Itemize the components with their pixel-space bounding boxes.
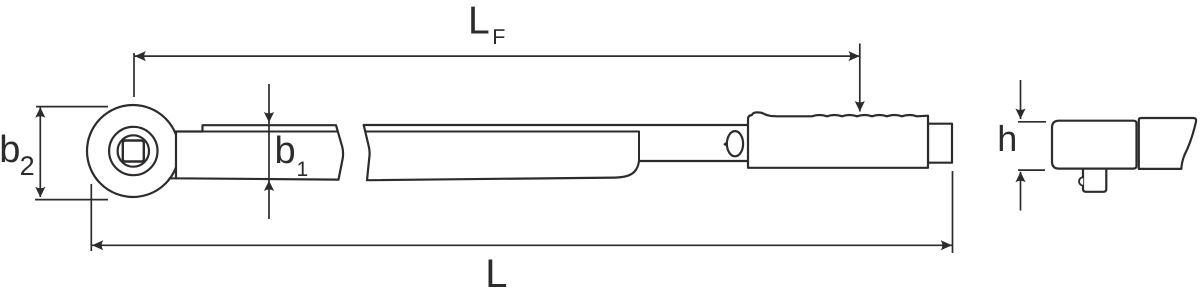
arrowhead h up (1015, 172, 1025, 183)
arrowhead b2 up (35, 107, 45, 118)
arrowhead L_F down onto handle (855, 101, 865, 112)
svg-text:L: L (485, 252, 507, 295)
wrench head outer circle (87, 105, 179, 197)
head to shaft bottom junction (170, 177, 177, 179)
svg-text:1: 1 (297, 158, 309, 181)
square drive opening (123, 141, 144, 162)
label b1 (275, 130, 309, 181)
arrowhead b2 down (35, 187, 45, 198)
label b2 (0, 129, 35, 181)
head inner circle (118, 135, 149, 166)
shaft piece 2 with neck (364, 125, 750, 180)
dimension h top extension (1018, 121, 1046, 123)
side view head block (1052, 121, 1137, 169)
arrowhead b1 up (264, 181, 274, 192)
svg-text:b: b (275, 130, 296, 172)
dimension b2 top extension (36, 106, 108, 108)
dimension L_F left extension (133, 53, 135, 97)
arrowhead b1 down (264, 112, 274, 123)
arrowhead h down (1015, 109, 1025, 120)
svg-text:b: b (0, 129, 20, 171)
arrowhead L_F left (135, 51, 146, 61)
shaft piece 1 top edge line (176, 131, 337, 133)
ball detent (1079, 177, 1083, 185)
svg-text:L: L (468, 0, 490, 43)
shaft piece 2 body right edge (638, 132, 640, 162)
dimension b1 line (268, 84, 270, 219)
handle grip (748, 112, 928, 167)
dimension L line (92, 244, 952, 246)
square drive tang (side view) (1083, 169, 1106, 192)
svg-text:F: F (492, 25, 505, 49)
dimension L_F line (135, 55, 860, 57)
dimension h bottom line (1020, 172, 1022, 211)
svg-text:2: 2 (20, 151, 35, 181)
label L_F (468, 0, 505, 49)
dimension L right extension (952, 171, 954, 253)
arrowhead L left (92, 240, 103, 250)
dimension lines (35, 44, 1046, 254)
side view handle block (1139, 118, 1196, 169)
head middle circle (109, 127, 157, 175)
arrowhead L right (941, 240, 952, 250)
svg-text:h: h (997, 118, 1017, 159)
adjustment oval on neck (724, 142, 728, 147)
dimension h bottom extension (1018, 169, 1045, 171)
handle end cap (928, 124, 952, 163)
dimension L left extension (90, 184, 92, 251)
arrowhead L_F right (849, 51, 860, 61)
shaft piece 2 top edge line (365, 131, 639, 133)
dimension h top line (1020, 80, 1022, 119)
dimension b2 line (39, 107, 41, 197)
dimension L_F right leader (859, 44, 861, 112)
dimension b2 bottom extension (35, 199, 108, 201)
shaft piece 1 body (176, 125, 343, 179)
